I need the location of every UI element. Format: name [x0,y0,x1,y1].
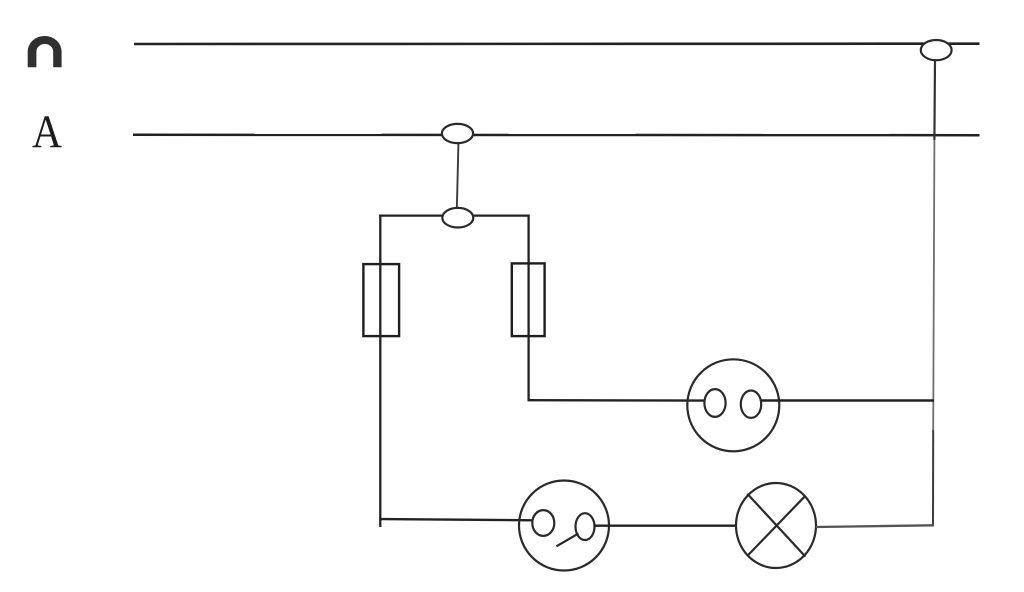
switch contact left [532,510,554,536]
connector on neutral bus [921,40,952,60]
wire: neutral bus line [134,42,980,45]
svg-text:A: A [32,106,62,158]
fuse F1 [363,264,399,336]
switch contact right [576,513,595,540]
wire: right-side drop, middle faint part [933,140,934,430]
wire: left branch down through fuse F1 [379,215,381,528]
fuse F2 [512,263,545,336]
switch SA body circle [519,481,609,571]
switch lever [556,534,578,547]
socket XS body circle [687,359,779,451]
lamp cross stroke 1 [747,494,805,557]
connector at branch point [442,208,473,228]
lamp cross stroke 2 [748,497,805,556]
wire: fuse F2 run to socket [528,399,707,402]
wire: switch to lamp [595,525,737,527]
wire: right-side drop from neutral connector (upper dark part) [933,58,936,140]
wire: bottom run from F1 to switch [379,519,532,520]
wire: right-side drop, lower part [932,430,934,525]
wire: link between phase connector and branch connector [457,141,459,210]
wire: socket to right drop [761,399,934,401]
wire: lamp to right drop [816,525,934,527]
socket contact left [704,389,725,417]
lamp EL body circle [736,483,816,568]
wire: branch cross bar [379,214,528,216]
wire: right branch down through fuse F2 [527,215,529,401]
label O (neutral bus label) [28,36,62,67]
wire: phase A bus line [133,134,980,137]
socket contact right [741,391,761,418]
connector on phase A bus [442,124,473,143]
